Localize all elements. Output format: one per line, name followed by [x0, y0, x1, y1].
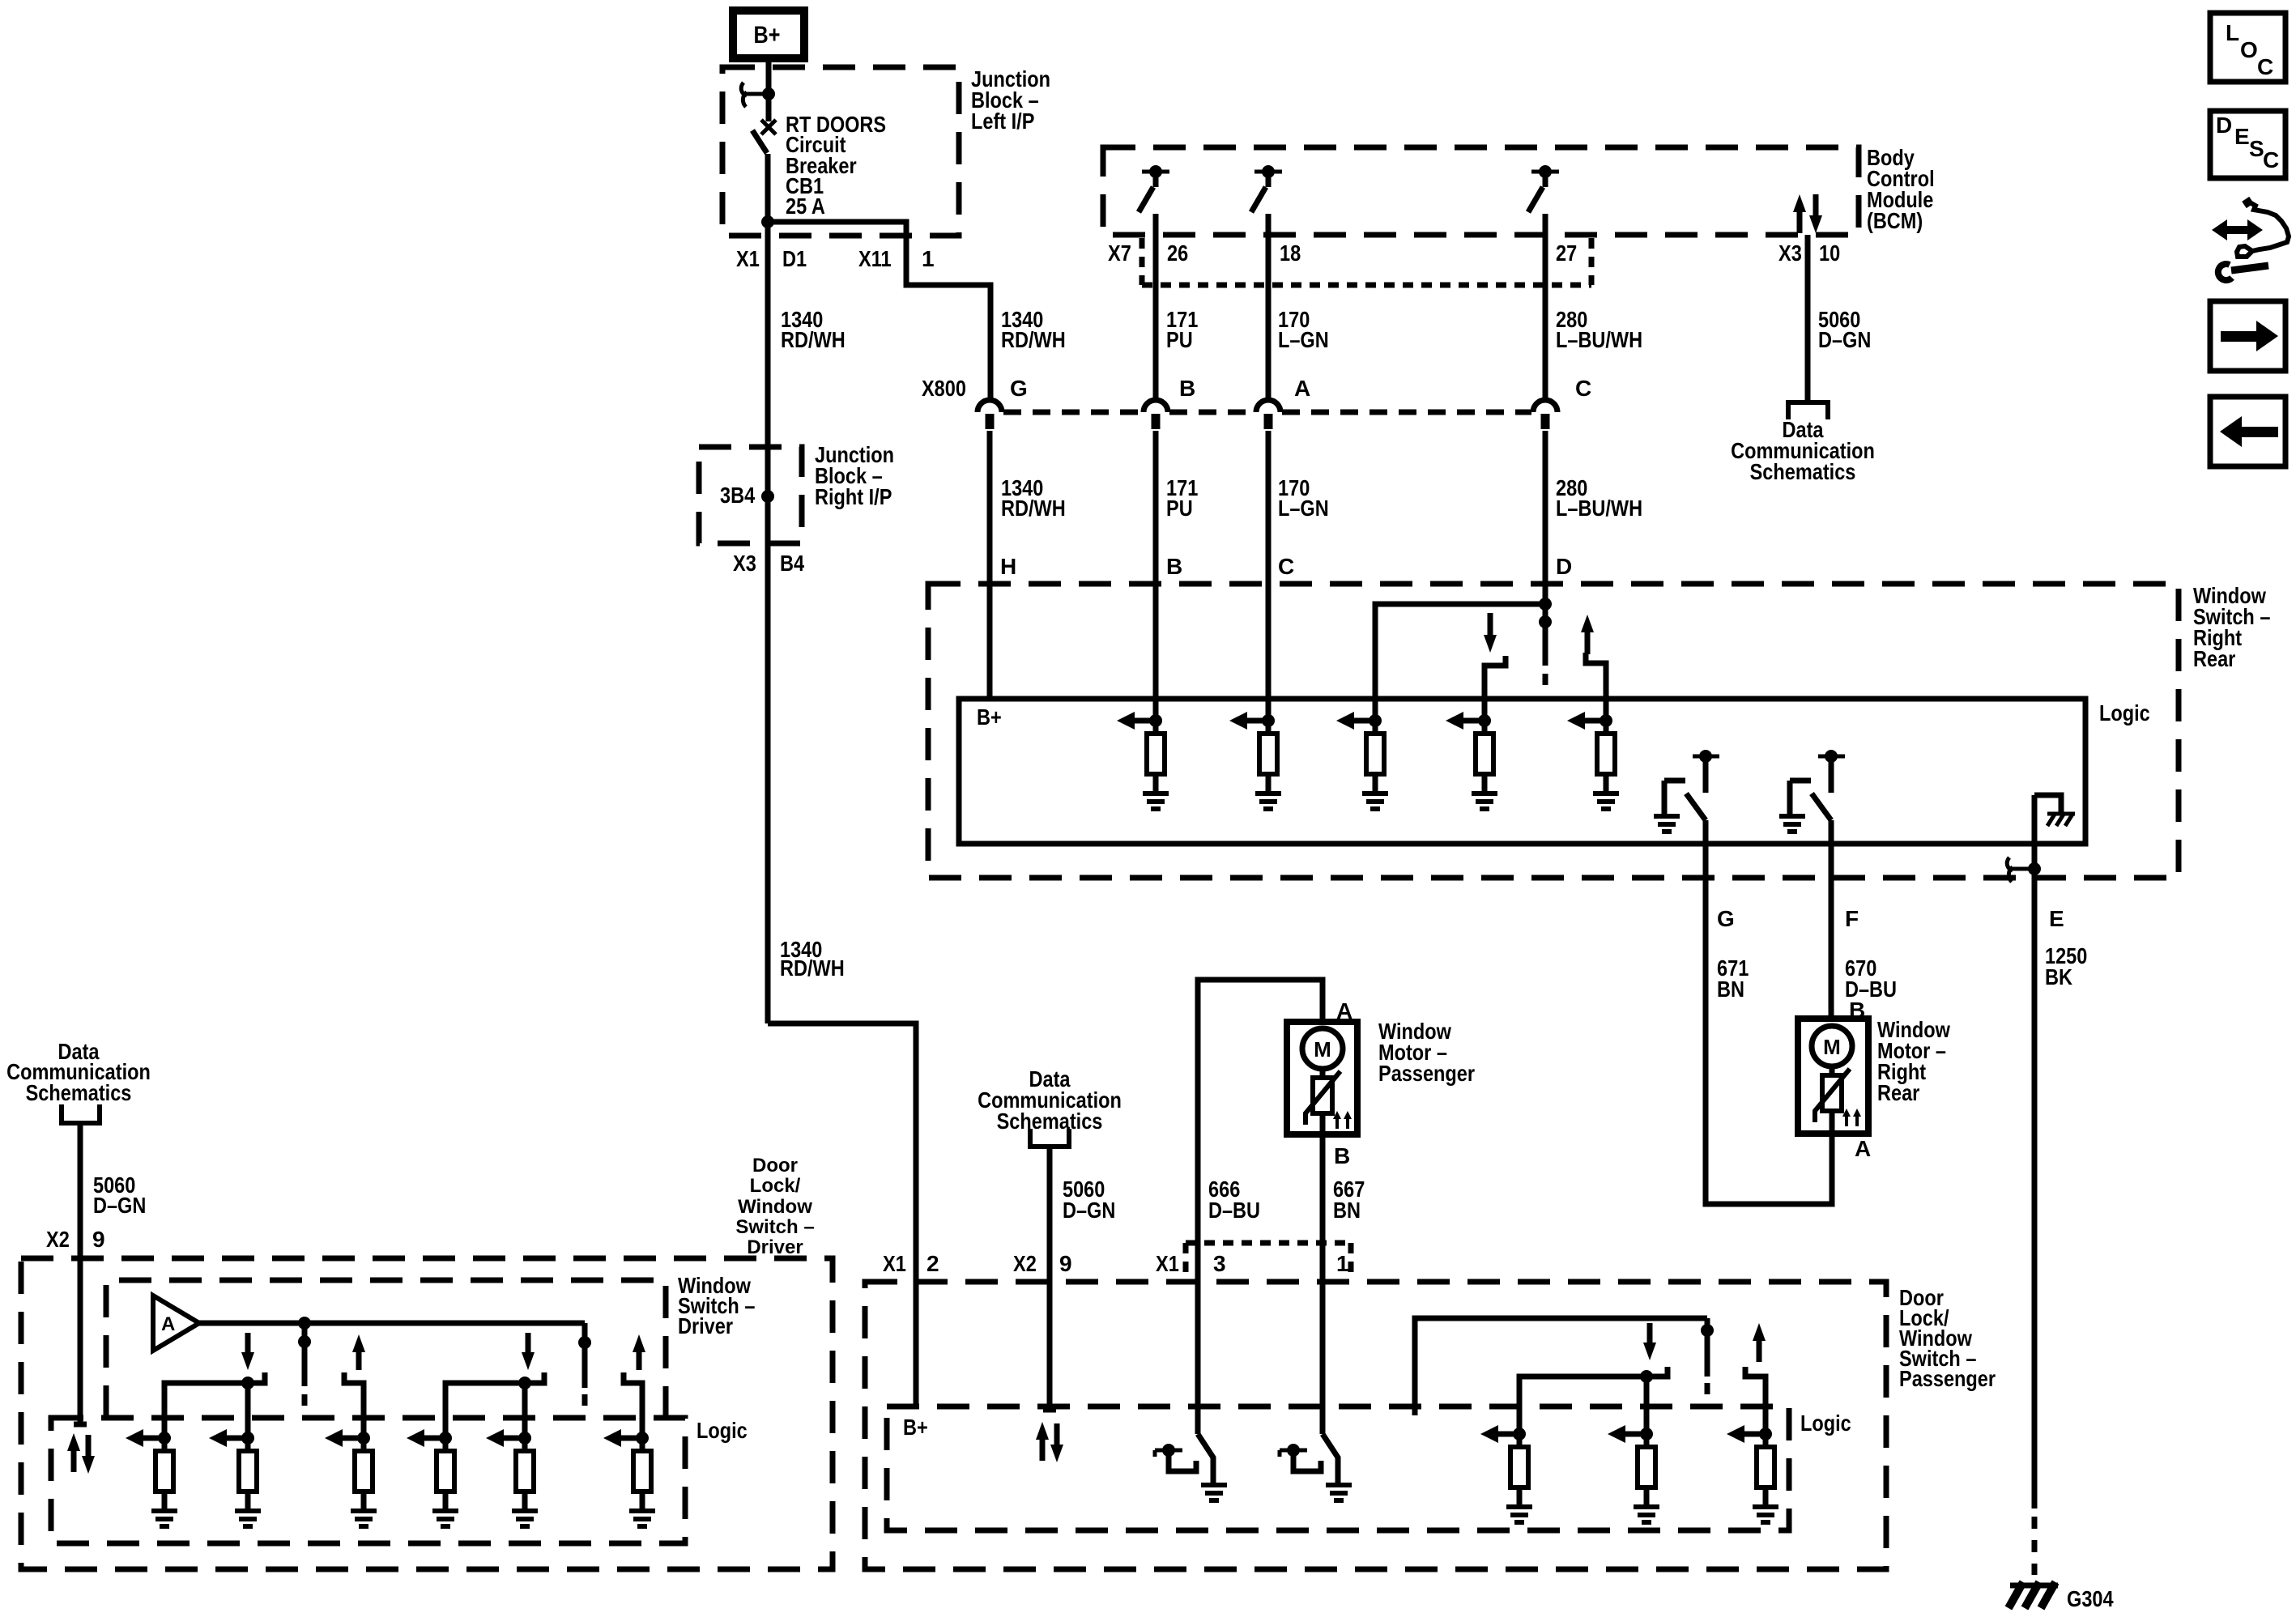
svg-text:F: F [1845, 906, 1859, 931]
contact step driver 1 [164, 1372, 265, 1438]
grounded switch output F [1779, 750, 1845, 832]
pin labels X7 26 18 27 X3 10 [1108, 240, 1840, 266]
off-page bracket to data communication schematics [1788, 402, 1828, 419]
label Body Control Module (BCM) [1867, 145, 1935, 233]
svg-text:L: L [2226, 20, 2239, 45]
window motor - passenger M2 [1287, 1022, 1357, 1134]
junction block - right I/P [699, 447, 802, 543]
contact step passenger down [1519, 1367, 1668, 1434]
label B+ input [977, 704, 1002, 730]
svg-text:Logic: Logic [1800, 1411, 1851, 1436]
svg-text:M: M [1314, 1037, 1331, 1062]
svg-text:D–GN: D–GN [93, 1193, 146, 1218]
contact step driver 4 [624, 1372, 642, 1438]
label Door Lock/Window Switch - Driver [735, 1155, 814, 1258]
icon back arrow [2210, 397, 2285, 466]
svg-text:RD/WH: RD/WH [781, 327, 846, 352]
node 3B4 junction dot [720, 483, 774, 508]
svg-text:B+: B+ [977, 704, 1002, 730]
wire D internal junction and branch [1375, 598, 1552, 721]
svg-text:Logic: Logic [2099, 700, 2150, 726]
passenger switch common bus wire [1415, 1318, 1707, 1415]
logic block passenger [887, 1406, 1851, 1530]
svg-text:C: C [1278, 554, 1294, 579]
sense resistor 2 with ground, right rear [1229, 712, 1281, 809]
svg-text:Logic: Logic [696, 1418, 748, 1443]
svg-text:PU: PU [1166, 327, 1193, 352]
svg-text:9: 9 [92, 1227, 105, 1252]
label Window Motor - Passenger [1378, 1019, 1475, 1086]
svg-text:Window: Window [738, 1196, 812, 1218]
serial data arrows passenger [1036, 1422, 1063, 1462]
BCM output driver switch pin 27 [1528, 165, 1559, 401]
label wire 1340 RD/WH left [781, 307, 846, 352]
svg-text:26: 26 [1167, 240, 1188, 266]
svg-text:18: 18 [1280, 240, 1301, 266]
body control module (BCM) box [1103, 147, 1859, 235]
icon LOC [2210, 13, 2285, 82]
svg-text:X2: X2 [1013, 1251, 1037, 1276]
label wire 5060 D-GN driver [93, 1172, 146, 1218]
blade and ground for wire 667 [1323, 1434, 1352, 1500]
sense resistor 3 with ground, driver [325, 1429, 377, 1526]
door lock/window switch - driver box [21, 1258, 833, 1569]
pin labels X1 D1 X11 1 [736, 246, 935, 271]
sense resistor 1 with ground, right rear [1117, 712, 1169, 809]
label wire 670 D-BU [1845, 955, 1897, 1002]
passenger switch moving contact [1701, 1318, 1714, 1394]
sense resistor 6 with ground, driver [603, 1429, 655, 1526]
svg-text:Door: Door [752, 1155, 798, 1177]
label Junction Block - Right I/P [815, 442, 894, 509]
sense resistor 3 with ground, passenger [1727, 1425, 1778, 1522]
svg-text:L–GN: L–GN [1278, 327, 1329, 352]
svg-text:A: A [1855, 1136, 1871, 1161]
label Data Communication Schematics (passenger) [978, 1066, 1122, 1134]
driver common bus wire A [199, 1321, 585, 1326]
wire B+ to CB1 [766, 58, 772, 91]
off-page bracket driver [62, 1104, 100, 1123]
down arrow window down contact [1484, 613, 1497, 653]
svg-text:Lock/: Lock/ [750, 1175, 801, 1197]
wire branch to pin X11 1 [768, 222, 990, 401]
label wire 1340 RD/WH long run [780, 937, 845, 981]
amplifier A [153, 1296, 199, 1351]
svg-text:B: B [1179, 376, 1195, 401]
label wire 671 BN [1717, 955, 1749, 1002]
svg-text:E: E [2234, 124, 2250, 149]
svg-text:B+: B+ [903, 1415, 928, 1440]
up arrow passenger window up [1753, 1323, 1766, 1362]
svg-text:X1: X1 [1156, 1251, 1179, 1276]
serial data arrows driver [67, 1433, 95, 1474]
svg-text:1: 1 [922, 246, 935, 271]
power symbol B+ [733, 11, 804, 58]
wire 1250 BK pin E to ground [2032, 795, 2038, 1575]
connector X7 dotted row [1142, 238, 1591, 285]
svg-text:X1: X1 [736, 246, 760, 271]
label wire 667 BN [1333, 1177, 1365, 1223]
sense resistor 1 with ground, driver [126, 1429, 177, 1526]
svg-text:B: B [1166, 554, 1182, 579]
svg-text:G: G [1010, 376, 1028, 401]
contact step to resistor 4 [1485, 656, 1506, 721]
label wire 280 L-BU/WH [1556, 307, 1642, 352]
svg-text:3B4: 3B4 [720, 483, 756, 508]
svg-text:D–BU: D–BU [1208, 1198, 1260, 1223]
BCM serial data arrows [1793, 194, 1822, 233]
labels X800 G B A C [922, 376, 1591, 401]
label wire 1250 BK [2045, 943, 2087, 989]
icon DESC [2210, 111, 2285, 178]
pin letters A B passenger motor [1334, 998, 1352, 1168]
icon connector repair [2212, 200, 2289, 280]
svg-text:RD/WH: RD/WH [780, 955, 845, 981]
svg-text:BN: BN [1717, 977, 1744, 1002]
blade and ground for wire 666 [1198, 1434, 1227, 1500]
svg-text:G304: G304 [2067, 1586, 2114, 1611]
svg-text:Passenger: Passenger [1378, 1061, 1475, 1086]
label Window Switch - Driver [678, 1273, 755, 1338]
pin letters G F E [1717, 906, 2064, 931]
label Data Communication Schematics (BCM) [1731, 417, 1875, 484]
label wire 5060 D-GN [1818, 307, 1871, 352]
wire 5060 D-GN to passenger switch [1043, 1147, 1056, 1410]
label B+ passenger logic [903, 1415, 928, 1440]
window switch - driver inner box [106, 1280, 666, 1418]
svg-text:X3: X3 [1778, 240, 1802, 266]
pin labels X1 2 X2 9 X1 3 1 [883, 1251, 1349, 1276]
sense resistor 2 with ground, passenger [1608, 1425, 1659, 1522]
svg-text:9: 9 [1059, 1251, 1072, 1276]
window switch - right rear box [928, 584, 2179, 878]
in-line connector X800 [978, 400, 1557, 429]
grounded switch output G [1654, 750, 1719, 832]
wire 1340 RD/WH jog to passenger switch [768, 1023, 916, 1406]
svg-text:Rear: Rear [1877, 1080, 1919, 1105]
svg-text:Left I/P: Left I/P [971, 109, 1034, 134]
svg-text:X800: X800 [922, 376, 966, 401]
terminal clip on wire 1250 BK [2007, 857, 2041, 882]
svg-text:3: 3 [1213, 1251, 1226, 1276]
svg-text:PU: PU [1166, 496, 1193, 521]
pin letters B A right rear motor [1849, 998, 1871, 1161]
label Junction Block - Left I/P [971, 66, 1050, 134]
off-page bracket passenger [1030, 1129, 1069, 1147]
svg-text:Driver: Driver [747, 1236, 803, 1258]
svg-text:X2: X2 [46, 1227, 70, 1252]
svg-text:BK: BK [2045, 964, 2072, 989]
svg-text:RD/WH: RD/WH [1001, 327, 1066, 352]
svg-text:D–GN: D–GN [1818, 327, 1871, 352]
label Door Lock/Window Switch - Passenger [1899, 1285, 1996, 1391]
wire 170 L-GN to pin C [1266, 431, 1272, 721]
connector X1 dotted box passenger [1186, 1243, 1351, 1278]
svg-text:D: D [1556, 554, 1572, 579]
up arrow window up contact [1581, 615, 1594, 654]
pin letters H B C D [1000, 554, 1572, 579]
pin labels X3 B4 [733, 551, 804, 576]
sense resistor 5 with ground, right rear [1567, 712, 1619, 809]
svg-text:X11: X11 [858, 246, 892, 271]
label Data Communication Schematics (driver) [6, 1039, 151, 1105]
svg-text:B4: B4 [780, 551, 804, 576]
svg-text:RD/WH: RD/WH [1001, 496, 1066, 521]
contact step passenger up [1745, 1367, 1766, 1434]
ground G304 [2008, 1582, 2114, 1611]
wire 5060 D-GN to driver switch [74, 1123, 87, 1424]
wire 1340 RD/WH to window switch right rear pin H [987, 431, 993, 699]
svg-text:C: C [2263, 147, 2279, 172]
label wire 5060 D-GN passenger [1063, 1177, 1115, 1223]
svg-text:10: 10 [1819, 240, 1840, 266]
label Window Motor - Right Rear [1877, 1017, 1950, 1105]
driver moving contact 2 [578, 1323, 591, 1406]
contact step driver 3 [445, 1372, 544, 1438]
BCM output driver switch pin 26 [1139, 165, 1169, 401]
sense resistor 2 with ground, driver [209, 1429, 261, 1526]
up arrow driver contact 2 [352, 1334, 365, 1370]
sense resistor 4 with ground, driver [407, 1429, 458, 1526]
wire 171 PU to pin B [1153, 431, 1159, 721]
svg-text:B+: B+ [754, 22, 781, 49]
label wire 171 PU [1166, 307, 1198, 352]
svg-text:M: M [1823, 1035, 1841, 1059]
labels second row 1340 RD/WH [1001, 475, 1066, 521]
door lock/window switch - passenger box [865, 1282, 1886, 1569]
BCM output driver switch pin 18 [1251, 165, 1282, 401]
wire 666 D-BU passenger motor A loop [1198, 980, 1323, 1434]
label wire 170 L-GN [1278, 307, 1329, 352]
sense resistor 5 with ground, driver [486, 1429, 538, 1526]
svg-text:(BCM): (BCM) [1867, 208, 1923, 233]
terminal clip at CB1 [741, 83, 775, 107]
svg-text:X7: X7 [1108, 240, 1131, 266]
pin labels X2 9 driver [46, 1227, 105, 1252]
svg-text:2: 2 [926, 1251, 939, 1276]
up arrow driver contact 4 [633, 1334, 645, 1370]
wire 280 L-BU/WH to pin D [1543, 431, 1548, 602]
wire 1340 RD/WH from CB1 through pin X1 D1 [765, 222, 771, 1023]
svg-text:C: C [1575, 376, 1591, 401]
svg-text:Driver: Driver [678, 1313, 733, 1338]
labels second row 280 L-BU/WH [1556, 475, 1642, 521]
wire 5060 D-GN from BCM X3 10 [1805, 235, 1811, 402]
svg-text:D1: D1 [782, 246, 807, 271]
svg-text:Passenger: Passenger [1899, 1366, 1996, 1391]
svg-text:L–BU/WH: L–BU/WH [1556, 496, 1642, 521]
svg-text:H: H [1000, 554, 1016, 579]
motor drive contact pivot pin 3 [1155, 1444, 1196, 1471]
wire 667 BN passenger motor B [1320, 1134, 1326, 1434]
svg-text:Schematics: Schematics [26, 1080, 132, 1105]
chassis ground inside logic block [2034, 795, 2075, 826]
down arrow passenger window down [1643, 1323, 1656, 1360]
svg-text:G: G [1717, 906, 1735, 931]
down arrow driver contact 1 [241, 1333, 254, 1370]
svg-text:D: D [2216, 113, 2232, 138]
wire 671 BN pin G to right rear motor [1706, 820, 1832, 1204]
logic block driver [51, 1418, 748, 1543]
svg-text:X3: X3 [733, 551, 756, 576]
svg-text:C: C [2257, 54, 2273, 79]
down arrow driver contact 3 [522, 1333, 535, 1370]
svg-text:1: 1 [1336, 1251, 1349, 1276]
wire 670 D-BU pin F to right rear motor [1829, 820, 1834, 1019]
svg-text:B: B [1849, 998, 1865, 1023]
svg-text:E: E [2049, 906, 2064, 931]
label wire 1340 RD/WH right [1001, 307, 1066, 352]
label RT DOORS Circuit Breaker CB1 25 A [786, 112, 886, 219]
circuit breaker CB1 25A [752, 94, 776, 222]
svg-text:X1: X1 [883, 1251, 906, 1276]
svg-text:A: A [1294, 376, 1310, 401]
svg-text:B: B [1334, 1143, 1350, 1168]
icon forward arrow [2210, 301, 2285, 371]
labels second row 171 PU [1166, 475, 1198, 521]
svg-text:L–GN: L–GN [1278, 496, 1329, 521]
svg-text:S: S [2249, 136, 2264, 161]
svg-text:A: A [161, 1313, 175, 1335]
svg-text:D–GN: D–GN [1063, 1198, 1115, 1223]
label Window Switch - Right Rear [2193, 583, 2270, 671]
logic block right rear [959, 699, 2150, 844]
svg-text:27: 27 [1556, 240, 1577, 266]
window motor - right rear M1 [1798, 1019, 1868, 1134]
svg-text:Schematics: Schematics [997, 1108, 1103, 1134]
svg-text:Rear: Rear [2193, 646, 2235, 671]
svg-text:Switch –: Switch – [735, 1216, 814, 1238]
svg-text:L–BU/WH: L–BU/WH [1556, 327, 1642, 352]
driver moving contact 1 [298, 1317, 311, 1406]
sense resistor 1 with ground, passenger [1480, 1425, 1532, 1522]
svg-text:A: A [1336, 998, 1352, 1023]
contact step to resistor 5 [1586, 653, 1606, 721]
sense resistor 4 with ground, right rear [1446, 712, 1497, 809]
svg-text:Right I/P: Right I/P [815, 484, 892, 509]
svg-text:25 A: 25 A [786, 194, 825, 219]
label wire 666 D-BU [1208, 1177, 1260, 1223]
svg-text:O: O [2240, 37, 2258, 62]
contact step driver 2 [344, 1372, 364, 1438]
labels second row 170 L-GN [1278, 475, 1329, 521]
svg-text:BN: BN [1333, 1198, 1361, 1223]
sense resistor 3 with ground, right rear [1336, 712, 1388, 809]
motor drive contact pivot pin 1 [1280, 1444, 1321, 1471]
junction dot CB1 output [761, 215, 774, 228]
junction block - left I/P [722, 67, 959, 236]
svg-text:Schematics: Schematics [1750, 459, 1856, 484]
